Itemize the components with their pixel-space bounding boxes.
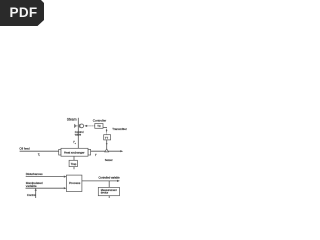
svg-text:Ti: Ti bbox=[38, 152, 41, 157]
svg-text:device: device bbox=[101, 191, 109, 195]
svg-text:valve: valve bbox=[75, 133, 82, 137]
svg-text:Controlled variable: Controlled variable bbox=[99, 176, 121, 180]
svg-text:Disturbances: Disturbances bbox=[26, 172, 43, 176]
svg-text:T: T bbox=[95, 153, 98, 157]
svg-text:Heat exchanger: Heat exchanger bbox=[64, 150, 85, 154]
svg-text:TT: TT bbox=[105, 136, 109, 140]
svg-text:Oil feed: Oil feed bbox=[19, 146, 30, 150]
svg-text:Trap: Trap bbox=[71, 162, 77, 166]
svg-text:Sensor: Sensor bbox=[105, 159, 113, 162]
svg-text:Steam: Steam bbox=[67, 118, 77, 122]
svg-text:Controller: Controller bbox=[93, 119, 106, 123]
svg-text:Process: Process bbox=[69, 181, 81, 185]
svg-text:Control: Control bbox=[27, 193, 36, 197]
svg-text:variable: variable bbox=[26, 184, 37, 188]
svg-text:Transmitter: Transmitter bbox=[112, 127, 127, 131]
svg-text:TC: TC bbox=[97, 124, 101, 128]
svg-text:Ts: Ts bbox=[73, 140, 76, 145]
